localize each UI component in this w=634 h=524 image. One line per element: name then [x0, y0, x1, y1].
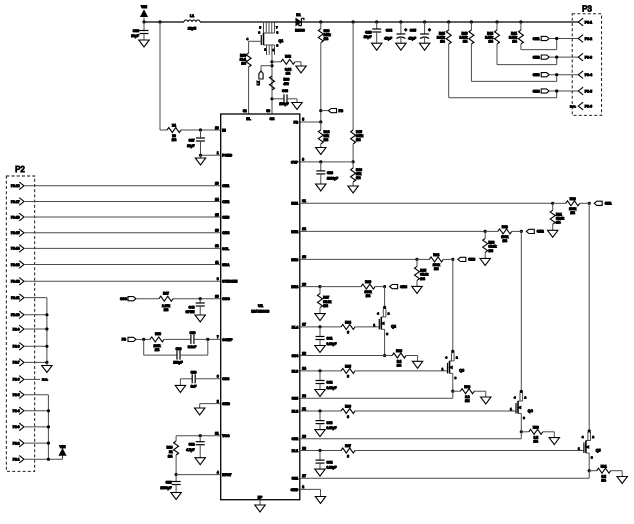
ground at R30 — [549, 438, 559, 445]
capacitor C28 10uF output — [376, 22, 378, 29]
transistor Q3 n-channel MOSFET current sink — [451, 350, 454, 353]
svg-text:R29: R29 — [396, 349, 402, 353]
svg-text:1%: 1% — [502, 239, 507, 243]
svg-text:27: 27 — [302, 323, 306, 327]
svg-text:R12: R12 — [285, 55, 291, 59]
svg-text:R18: R18 — [155, 332, 161, 336]
svg-text:CH2: CH2 — [537, 230, 544, 234]
svg-text:VIN: VIN — [141, 5, 147, 9]
svg-text:4.7µF: 4.7µF — [186, 448, 194, 452]
connector pin P3-5 — [578, 87, 583, 95]
wire R18 to C29 — [164, 338, 191, 340]
svg-text:1%: 1% — [155, 348, 160, 352]
wire U1 OVP pin 3 row — [300, 161, 353, 163]
wire FB TP to compensation network — [136, 338, 150, 340]
svg-text:R17: R17 — [163, 292, 169, 296]
wire rail to R15 — [352, 22, 354, 130]
svg-text:SCL: SCL — [222, 247, 229, 251]
node CH4 test point — [390, 285, 398, 289]
capacitor C44 0.01uF gate filter — [319, 451, 321, 461]
op-amp U1 MAX8686 controller IC body — [221, 114, 300, 500]
svg-text:100pF: 100pF — [279, 102, 288, 106]
svg-text:CH3: CH3 — [533, 73, 540, 77]
ground at C41 — [315, 346, 325, 353]
svg-text:P2-16: P2-16 — [11, 215, 20, 219]
connector pin P2-12 — [19, 278, 24, 286]
connector pin P2-3 — [19, 423, 24, 431]
svg-text:P2-18: P2-18 — [11, 184, 20, 188]
svg-text:C33: C33 — [166, 481, 172, 485]
svg-text:GND: GND — [222, 402, 230, 406]
node CH3 test point — [458, 257, 466, 261]
svg-text:Q3: Q3 — [459, 369, 464, 373]
capacitor C41 0.01uF gate filter — [319, 327, 321, 337]
resistor R19 2k 1% RTCT — [175, 436, 177, 441]
label N.C. at P2-6 — [24, 378, 40, 380]
resistor R20 100k 1% series — [553, 202, 566, 204]
svg-text:P3-2: P3-2 — [585, 37, 592, 41]
svg-text:1%: 1% — [356, 138, 361, 142]
svg-text:3: 3 — [302, 158, 304, 162]
node CH2 test point — [526, 229, 534, 233]
resistor R35 6 gate — [341, 368, 355, 373]
connector pin P2-4 — [19, 407, 24, 415]
svg-text:C30: C30 — [191, 371, 197, 375]
resistor R28 2.2 1% current sense — [453, 390, 461, 392]
svg-text:1%: 1% — [286, 71, 291, 75]
resistor R43 2.57k 1% string ballast — [470, 22, 472, 30]
resistor R38 12.1 1% gate — [246, 53, 251, 67]
svg-text:C34: C34 — [386, 28, 392, 32]
capacitor C43 0.01uF gate filter — [319, 411, 321, 421]
ground at U1 right GND — [315, 497, 325, 504]
ground at P2 bus — [46, 362, 48, 365]
wire R41 to CH1 node — [520, 44, 522, 50]
capacitor C43 OPEN on OSC — [199, 299, 201, 303]
wire P2-7 to ground bus — [24, 361, 47, 363]
svg-text:MAX8686: MAX8686 — [251, 309, 270, 314]
test point LX node — [261, 65, 272, 67]
svg-text:1%: 1% — [397, 363, 402, 367]
connector pin P2-17 — [19, 198, 24, 206]
wire R42 to CH2 node — [496, 44, 498, 65]
svg-text:P2-6: P2-6 — [13, 378, 20, 382]
svg-text:R1: R1 — [172, 124, 176, 128]
svg-text:P3-3: P3-3 — [585, 55, 592, 59]
wire U1 DL row R34 — [300, 326, 341, 328]
svg-text:1%: 1% — [434, 267, 439, 271]
capacitor C35 47uF output — [424, 22, 426, 34]
resistor R39 470 CS filter — [270, 76, 275, 90]
connector pin P2-11 — [19, 294, 24, 302]
wire U1 DL row R37 — [300, 450, 341, 452]
ground at R21 — [552, 224, 554, 230]
resistor R1 10 1% input — [160, 129, 167, 131]
ground at C42 — [315, 390, 325, 397]
svg-text:OVP: OVP — [291, 160, 299, 164]
svg-text:CH1: CH1 — [533, 37, 540, 41]
connector pin P2-8 — [19, 343, 24, 351]
svg-text:2: 2 — [217, 399, 219, 403]
ground at C34 — [396, 43, 406, 50]
ground at R27 — [319, 308, 321, 314]
svg-text:P2-8: P2-8 — [13, 345, 20, 349]
ground at C43 — [195, 315, 205, 322]
svg-text:N.C.: N.C. — [570, 104, 576, 108]
resistor R25 95.3k 1% pulldown — [416, 259, 418, 266]
svg-text:CS4: CS4 — [292, 354, 299, 358]
svg-text:2k: 2k — [169, 450, 173, 454]
ground at C33 — [171, 493, 181, 500]
wire P2-12 to U1 SYNC/EN — [24, 280, 221, 282]
svg-text:C37: C37 — [189, 138, 195, 142]
capacitor C34 47uF output — [400, 22, 402, 34]
svg-text:18: 18 — [302, 446, 306, 450]
svg-text:10: 10 — [215, 295, 219, 299]
svg-text:P2-9: P2-9 — [13, 327, 20, 331]
ground at R25 — [416, 280, 418, 286]
connector pin P2-2 — [19, 439, 24, 447]
svg-text:Q4: Q4 — [528, 409, 533, 413]
svg-text:1%: 1% — [366, 294, 371, 298]
wire P2-9 to ground bus — [24, 328, 47, 330]
svg-text:DL4: DL4 — [292, 325, 299, 329]
svg-text:CS: CS — [270, 117, 275, 121]
svg-text:14: 14 — [215, 197, 219, 201]
svg-text:5: 5 — [302, 118, 304, 122]
ground at C30 — [179, 379, 181, 386]
wire CH2 to Q drain — [520, 231, 522, 391]
svg-text:1%: 1% — [601, 479, 606, 483]
wire Q2 source to CS node — [384, 329, 386, 355]
resistor R21 95.3k 1% pulldown — [552, 203, 554, 210]
svg-text:SYNC/EN: SYNC/EN — [222, 280, 238, 284]
ground at R29 — [412, 361, 422, 368]
wire U1 DR4 row — [300, 286, 320, 288]
svg-text:29: 29 — [215, 126, 219, 130]
svg-text:C32: C32 — [189, 443, 195, 447]
wire P2-18 to U1 ON1 — [24, 185, 221, 187]
svg-text:9: 9 — [217, 277, 219, 281]
svg-text:P2-10: P2-10 — [11, 313, 20, 317]
connector pin P2-6 — [19, 376, 24, 384]
wire VIN rail to L1 — [144, 21, 183, 23]
wire Q1 gate to R38 — [249, 40, 262, 42]
resistor R23 95.3k 1% pulldown — [484, 231, 486, 238]
wire R35 to Q3 gate — [355, 370, 448, 372]
wire L1 to Q1 drain — [201, 21, 296, 23]
svg-text:CH2: CH2 — [533, 55, 540, 59]
svg-text:24: 24 — [302, 367, 306, 371]
capacitor C40 100pF on CS — [272, 98, 284, 100]
resistor R36 6 gate — [341, 409, 355, 414]
svg-text:1: 1 — [217, 151, 219, 155]
wire U1 DL row R36 — [300, 410, 341, 412]
svg-text:R30: R30 — [533, 425, 539, 429]
svg-text:R20: R20 — [570, 197, 576, 201]
svg-text:DL2: DL2 — [292, 409, 299, 413]
wire P2-5 VIN bus — [24, 394, 48, 396]
wire P2-11 ground bus — [24, 297, 47, 299]
wire R44 to CH4 node — [448, 44, 450, 98]
svg-text:R37: R37 — [345, 444, 351, 448]
svg-text:P3-5: P3-5 — [585, 89, 592, 93]
svg-text:OSC: OSC — [120, 297, 128, 301]
svg-text:FB: FB — [122, 338, 127, 342]
connector pin P2-15 — [19, 229, 24, 237]
svg-text:P2-14: P2-14 — [11, 247, 20, 251]
wire P2-15 to U1 ON4 — [24, 232, 221, 234]
node CH3 test point to P3 — [541, 73, 549, 77]
wire output rail to P3-1 — [302, 21, 579, 23]
svg-text:EP: EP — [258, 495, 263, 499]
wire U1 GND pin 2 — [200, 403, 221, 405]
wire U1 CS row to R28 — [300, 397, 453, 399]
resistor R37 6 gate — [341, 448, 355, 453]
svg-text:1%: 1% — [512, 40, 517, 44]
connector pin P3-4 — [578, 71, 583, 79]
wire P2-2 to VIN bus — [24, 442, 48, 444]
resistor R26 100k 1% series — [320, 286, 361, 288]
svg-text:U1: U1 — [258, 303, 264, 308]
svg-text:6: 6 — [347, 375, 349, 379]
wire P2-14 to U1 SCL — [24, 247, 221, 249]
ground at C28 — [372, 43, 382, 50]
svg-text:C36: C36 — [133, 29, 139, 33]
svg-text:31: 31 — [302, 199, 306, 203]
ground at EP — [255, 505, 265, 512]
svg-text:0.01µF: 0.01µF — [327, 342, 337, 346]
wire P2-4 to VIN bus — [24, 410, 48, 412]
svg-text:IN: IN — [222, 128, 226, 132]
capacitor C33 2200pF RTCT — [175, 475, 177, 482]
svg-text:B1600: B1600 — [295, 29, 305, 33]
wire R19 to U1 RTCT pin 4 — [175, 455, 177, 475]
wire Q3 source to CS node — [452, 373, 454, 391]
svg-text:R31: R31 — [601, 464, 607, 468]
svg-text:1%: 1% — [489, 249, 494, 253]
connector pin P2-16 — [19, 213, 24, 221]
resistor R27 95.3k 1% pulldown — [319, 287, 321, 294]
resistor R13 215k 1% feedback divider top — [320, 22, 322, 29]
capacitor C42 0.01uF gate filter — [319, 371, 321, 381]
wire U1 DR3 row — [300, 258, 417, 260]
svg-text:P3-6: P3-6 — [585, 104, 592, 108]
svg-text:28: 28 — [302, 351, 306, 355]
svg-text:47µF: 47µF — [408, 36, 416, 40]
power flag VIN at P2-1 — [62, 455, 64, 459]
svg-text:CS3: CS3 — [292, 397, 299, 401]
wire Q1 source node — [271, 55, 273, 99]
svg-text:CH4: CH4 — [533, 89, 540, 93]
resistor R41 2.57k 1% string ballast — [520, 22, 522, 30]
resistor R44 2.57k 1% string ballast — [448, 22, 450, 30]
svg-text:7: 7 — [217, 335, 219, 339]
resistor R15 241k 1% OVP divider top — [351, 130, 356, 144]
svg-text:DR2: DR2 — [291, 230, 298, 234]
svg-text:GND: GND — [291, 488, 299, 492]
ground at C35 — [419, 43, 429, 50]
inductor L1 22uH — [184, 20, 200, 22]
capacitor C36 10uF input bypass — [143, 22, 145, 31]
ground at R12 — [296, 66, 306, 73]
svg-text:P2-5: P2-5 — [13, 393, 20, 397]
wire U1 CS row to R29 — [300, 355, 385, 357]
svg-text:13: 13 — [215, 182, 219, 186]
svg-text:P2-1: P2-1 — [13, 458, 20, 462]
node CH1 test point — [594, 201, 602, 205]
svg-text:DR3: DR3 — [291, 258, 298, 262]
svg-text:C43: C43 — [189, 305, 195, 309]
svg-text:32: 32 — [243, 109, 247, 113]
svg-text:1%: 1% — [440, 40, 445, 44]
svg-text:2200pF: 2200pF — [161, 486, 172, 490]
svg-text:CSS: CSS — [222, 377, 230, 381]
wire P2-3 to VIN bus — [24, 426, 48, 428]
svg-text:11: 11 — [215, 260, 219, 264]
connector pin P2-18 — [19, 182, 24, 190]
node CH1 test point to P3 — [541, 36, 549, 40]
svg-text:10µF: 10µF — [364, 35, 372, 39]
svg-text:C28: C28 — [365, 30, 371, 34]
svg-text:26: 26 — [302, 282, 306, 286]
wire P2-8 to ground bus — [24, 345, 47, 347]
capacitor C29 3.3nF compensation — [190, 335, 192, 344]
node CH4 test point to P3 — [541, 89, 549, 93]
ground at R28 — [481, 397, 491, 404]
resistor R14 12k 1% feedback divider bottom — [320, 122, 322, 130]
svg-text:1%: 1% — [324, 37, 329, 41]
svg-text:P2-13: P2-13 — [11, 263, 20, 267]
svg-text:1%: 1% — [324, 138, 329, 142]
svg-text:21: 21 — [302, 407, 306, 411]
svg-text:P2-3: P2-3 — [13, 425, 20, 429]
ground at R14 — [320, 144, 322, 148]
svg-text:P2-2: P2-2 — [13, 441, 20, 445]
svg-text:1nF: 1nF — [191, 385, 197, 389]
resistor R30 2.2 1% current sense — [521, 431, 529, 433]
ground at C32 — [195, 458, 205, 465]
wire U1 PGND pin 1 — [201, 154, 221, 156]
svg-text:1%: 1% — [172, 138, 177, 142]
svg-text:ON2: ON2 — [222, 200, 229, 204]
svg-text:30: 30 — [266, 109, 270, 113]
wire U1 DR2 row — [300, 230, 485, 232]
ground at C44 — [315, 469, 325, 476]
svg-text:1%: 1% — [465, 399, 470, 403]
svg-text:22µH: 22µH — [188, 27, 197, 31]
svg-text:47µF: 47µF — [384, 36, 392, 40]
svg-text:P3: P3 — [582, 5, 592, 14]
svg-text:ON4: ON4 — [222, 231, 229, 235]
svg-text:1000pF: 1000pF — [327, 176, 338, 180]
connector pin P2-5 — [19, 391, 24, 399]
diode D1 B1600 schottky rectifier — [296, 19, 301, 26]
capacitor C32 4.7uF VCC bypass — [199, 436, 201, 442]
svg-text:CH3: CH3 — [468, 258, 475, 262]
resistor R18 182k 1% compensation — [150, 337, 164, 342]
ground at C40 — [292, 103, 302, 110]
svg-text:1%: 1% — [556, 221, 561, 225]
wire R34 to Q2 gate — [355, 326, 379, 328]
svg-text:DL: DL — [246, 117, 251, 121]
svg-text:Q1: Q1 — [279, 39, 284, 43]
svg-text:1%: 1% — [356, 176, 361, 180]
wire U1 CS row to R31 — [300, 477, 589, 479]
svg-text:C42: C42 — [327, 381, 333, 385]
ground at GND pin — [199, 404, 201, 408]
svg-text:P2-17: P2-17 — [11, 200, 20, 204]
svg-text:DR4: DR4 — [291, 285, 298, 289]
svg-text:R36: R36 — [345, 405, 351, 409]
svg-text:CS1: CS1 — [292, 477, 299, 481]
svg-text:3.3nF: 3.3nF — [188, 345, 196, 349]
wire R13 to FB node — [320, 43, 322, 122]
capacitor C38 1000pF on OVP — [320, 162, 322, 171]
svg-text:20: 20 — [302, 435, 306, 439]
svg-text:25: 25 — [302, 255, 306, 259]
svg-text:220pF: 220pF — [173, 361, 182, 365]
connector P2 box — [6, 176, 34, 471]
svg-text:R35: R35 — [345, 365, 351, 369]
svg-text:1%: 1% — [164, 308, 169, 312]
wire P2-16 to U1 ON3 — [24, 216, 221, 218]
wire Q5 source to CS node — [588, 453, 590, 471]
svg-text:6: 6 — [217, 375, 219, 379]
svg-text:1%: 1% — [570, 211, 575, 215]
svg-text:P3-1: P3-1 — [585, 20, 592, 24]
transistor Q1 n-channel power MOSFET — [263, 22, 265, 33]
svg-text:Q2: Q2 — [391, 325, 396, 329]
capacitor C37 10uF VCC input bypass — [200, 130, 202, 138]
connector pin P3-1 — [578, 18, 583, 26]
wire CH4 to Q drain — [384, 287, 386, 308]
svg-text:1%: 1% — [323, 304, 328, 308]
svg-text:R34: R34 — [345, 321, 351, 325]
ground at C36 — [139, 40, 149, 47]
ground at PGND — [200, 155, 202, 158]
wire R36 to Q4 gate — [355, 410, 516, 412]
svg-text:P2: P2 — [15, 165, 25, 174]
ground at R16 — [352, 182, 354, 186]
wire VIN branch down to R1 — [159, 22, 161, 130]
svg-text:23: 23 — [302, 394, 306, 398]
svg-text:P2-7: P2-7 — [13, 361, 20, 365]
svg-text:DL3: DL3 — [292, 369, 299, 373]
wire P2-1 to VIN — [24, 458, 63, 460]
svg-text:16: 16 — [215, 229, 219, 233]
svg-text:6: 6 — [347, 415, 349, 419]
wire CH3 to Q drain — [452, 259, 454, 351]
svg-text:P2-12: P2-12 — [11, 280, 20, 284]
connector pin P2-13 — [19, 261, 24, 269]
connector pin P3-6 — [578, 102, 583, 110]
transistor Q4 n-channel MOSFET current sink — [520, 390, 523, 393]
svg-text:15: 15 — [215, 213, 219, 217]
wire R37 to Q5 gate — [355, 450, 584, 452]
wire U1 GND right pin 2 — [300, 488, 321, 490]
svg-text:PGND: PGND — [222, 154, 232, 158]
resistor R29 2.2 1% current sense — [385, 355, 393, 357]
svg-text:CS2: CS2 — [292, 437, 299, 441]
svg-text:C38: C38 — [327, 171, 333, 175]
svg-text:0.01µF: 0.01µF — [327, 466, 337, 470]
transistor Q2 n-channel MOSFET current sink — [383, 306, 386, 309]
ground at R31 — [617, 477, 627, 484]
svg-text:C29: C29 — [190, 331, 196, 335]
power flag VIN (input) — [143, 18, 145, 23]
svg-text:21: 21 — [215, 432, 219, 436]
